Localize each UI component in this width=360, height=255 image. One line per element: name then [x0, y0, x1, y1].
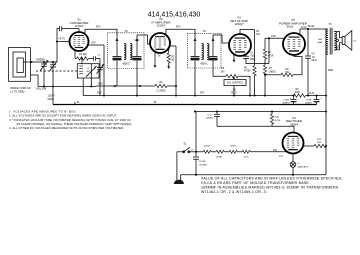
- node label 12SA7 GRID: [48, 95, 56, 101]
- svg-text:414,415,416,430: 414,415,416,430: [148, 12, 201, 19]
- svg-text:455KC: 455KC: [200, 63, 207, 65]
- svg-text:+: +: [321, 97, 323, 100]
- svg-text:C7: C7: [250, 52, 254, 54]
- wire: V1 plate to T1 primary, 87V: [85, 26, 117, 34]
- resistor R3: [167, 48, 175, 69]
- svg-text:121V: 121V: [301, 26, 307, 29]
- capacitor C9 .02 MFD: [305, 28, 317, 96]
- capacitor C2 (osc grid cap): [60, 26, 80, 31]
- svg-text:R3: R3: [171, 56, 175, 58]
- wire: osc coil bottom-left to B+ rail corner: [82, 78, 84, 96]
- svg-text:R1 22K: R1 22K: [79, 54, 87, 56]
- wire: T2 secondary top to V3 diode plates: [213, 35, 229, 43]
- bottom AC bus: [181, 174, 326, 176]
- svg-text:35W4: 35W4: [290, 122, 298, 126]
- svg-text:50L6: 50L6: [244, 157, 250, 159]
- output transformer T3: [318, 23, 337, 55]
- wire: C7 to V5 grid: [265, 35, 285, 64]
- svg-text:R7: R7: [269, 68, 273, 70]
- svg-text:47Ω: 47Ω: [279, 156, 283, 158]
- svg-text:B-: B-: [77, 100, 80, 104]
- svg-text:C10: C10: [207, 114, 212, 116]
- wire: V3 plate to R5, C8 node: [240, 30, 261, 36]
- svg-text:S1: S1: [184, 143, 188, 146]
- wire: loop upper terminal to tuning capacitor (GREEN): [23, 58, 57, 64]
- svg-text:12SK7: 12SK7: [156, 24, 165, 28]
- svg-text:POWER AMPLIFIER: POWER AMPLIFIER: [279, 21, 308, 25]
- notes block left: [9, 109, 133, 130]
- svg-text:40MFD: 40MFD: [305, 102, 313, 104]
- svg-text:YELLOW: YELLOW: [36, 87, 47, 91]
- svg-text:12SK7: 12SK7: [230, 145, 237, 147]
- svg-text:VALUE OF ALL CAPACITORS ARE IN: VALUE OF ALL CAPACITORS ARE IN MMF UNLES…: [201, 176, 343, 180]
- svg-text:105MMF IN ASSEMBLIES MARKED W7: 105MMF IN ASSEMBLIES MARKED W71469-3, 81…: [201, 186, 339, 190]
- svg-text:12SA7: 12SA7: [216, 156, 223, 159]
- svg-text:87V: 87V: [96, 26, 101, 29]
- svg-text:R12: R12: [317, 139, 322, 141]
- svg-text:R8: R8: [286, 69, 290, 71]
- capacitor C7 .005 MFD (coupling): [243, 52, 269, 63]
- svg-text:470K: 470K: [268, 55, 274, 57]
- svg-text:I1: I1: [298, 163, 301, 165]
- svg-text:*-8.7V: *-8.7V: [58, 38, 65, 41]
- svg-text:22Ω: 22Ω: [317, 142, 321, 144]
- trimmer capacitor C1B branch: [50, 61, 57, 86]
- svg-text:LS: LS: [353, 41, 356, 43]
- tube V2 IF amplifier 12SK7: [150, 17, 171, 53]
- variable capacitor C1C (osc tuning): [96, 59, 103, 96]
- volume control R4 1/2 MEG: [221, 68, 246, 95]
- resistor R10 470: [270, 112, 280, 127]
- wire: YELLOW / AVC line left section: [38, 85, 96, 87]
- capacitor C10 .05MFD: [206, 112, 220, 127]
- svg-text:.02: .02: [312, 57, 316, 59]
- resistor R1 22K: [75, 50, 93, 60]
- wire: V2 screen to B+ rail: [170, 46, 177, 96]
- svg-text:T3: T3: [329, 23, 332, 26]
- electrolytic C13A 40MFD: [282, 94, 296, 104]
- wire: T1 secondary top to V2 grid: [133, 35, 150, 44]
- wire: grid lead to V1: [57, 29, 60, 63]
- wire: T2 secondary to volume control: [213, 68, 226, 76]
- svg-text:VOL CONTROL: VOL CONTROL: [227, 83, 244, 85]
- svg-text:L1 TO GRID: L1 TO GRID: [10, 89, 24, 93]
- wire: V3 cathode return with arrow: [233, 54, 236, 62]
- AC line vertical: [325, 96, 327, 175]
- power plug: [174, 152, 184, 184]
- svg-text:T1: T1: [124, 29, 128, 33]
- notes block right: [201, 176, 343, 194]
- svg-text:2.2 MEG: 2.2 MEG: [156, 90, 166, 93]
- svg-text:240: 240: [221, 71, 226, 73]
- svg-text:87V: 87V: [92, 43, 97, 45]
- svg-text:C9: C9: [312, 54, 316, 56]
- svg-text:MAZDA 47: MAZDA 47: [298, 166, 309, 169]
- svg-text:.05MFD: .05MFD: [206, 117, 214, 119]
- svg-text:R4: R4: [221, 68, 225, 70]
- IF transformer T2: [187, 29, 221, 68]
- svg-text:87V: 87V: [200, 92, 205, 95]
- svg-text:C8: C8: [256, 31, 260, 33]
- wire: loop lower terminal (YELLOW): [31, 75, 47, 91]
- svg-text:RED: RED: [328, 69, 333, 72]
- svg-text:150: 150: [285, 72, 290, 74]
- svg-text:87V: 87V: [176, 26, 181, 29]
- svg-text:R6: R6: [268, 52, 272, 54]
- svg-text:68: 68: [171, 59, 174, 61]
- svg-text:R2: R2: [159, 81, 163, 84]
- resistor R7 1 MEG: [263, 59, 275, 96]
- wire: transformer primary bottom, RED lead down: [326, 54, 333, 95]
- resistor R8 150 (cathode): [265, 55, 302, 77]
- svg-text:MEG: MEG: [231, 92, 237, 95]
- svg-text:B-: B-: [154, 100, 157, 104]
- tube V5 power amplifier 50L6: [279, 18, 308, 55]
- svg-text:1MEG: 1MEG: [269, 71, 276, 73]
- svg-text:T2: T2: [202, 29, 206, 33]
- resistor R12 22 (surge): [303, 139, 327, 148]
- wire: V1 screen to B+ rail: [88, 43, 104, 96]
- tube V3 det AF amp 12SQ7: [229, 16, 251, 56]
- svg-text:1500: 1500: [294, 91, 300, 94]
- svg-text:R10: R10: [275, 117, 280, 119]
- tube V1 converter 12SA7: [70, 18, 90, 51]
- wire: T1 secondary bottom to AVC line: [116, 69, 118, 87]
- speaker LS and voice coil: [334, 31, 356, 51]
- svg-text:MFD: MFD: [312, 60, 317, 62]
- AVC line: [96, 83, 155, 87]
- svg-text:12SA7: 12SA7: [74, 24, 83, 28]
- wire: V2 cathode return with arrow: [154, 52, 161, 68]
- svg-text:INSIDE TURN OF: INSIDE TURN OF: [10, 86, 31, 90]
- svg-text:470Ω: 470Ω: [275, 120, 281, 122]
- IF transformer T1: [108, 29, 145, 69]
- svg-text:L2: L2: [87, 68, 90, 70]
- svg-text:C5,C6 & R5 ARE PART OF MOLDED: C5,C6 & R5 ARE PART OF MOLDED TRANSFORME…: [201, 181, 310, 185]
- wire: T1 winding bottom to B+ rail: [136, 69, 138, 96]
- svg-text:R5: R5: [244, 67, 248, 69]
- wire: T2 bottom to B+ rail: [194, 68, 196, 96]
- loop antenna L1: [9, 48, 32, 94]
- svg-text:C13B: C13B: [306, 100, 312, 102]
- resistor R9 1500 (filter): [294, 88, 328, 97]
- svg-text:*-4.5V: *-4.5V: [133, 40, 140, 42]
- rectifier feed line: [194, 110, 327, 112]
- pilot lamp I1 MAZDA 47: [290, 154, 309, 175]
- electrolytic C13B 40MFD: [305, 94, 323, 104]
- oscillator coil L2: [77, 57, 99, 78]
- heater chain line: [189, 145, 287, 158]
- svg-text:22-DM: 22-DM: [199, 161, 206, 163]
- svg-text:12SQ7: 12SQ7: [234, 22, 244, 26]
- svg-text:BLUE: BLUE: [308, 25, 315, 28]
- resistor R5 47000: [244, 30, 256, 96]
- switch S1: [177, 143, 194, 153]
- svg-text:4. ALL OTHER DC VOLTAGES MEASU: 4. ALL OTHER DC VOLTAGES MEASURED WITH 2…: [9, 126, 124, 130]
- gang tuning dashed line: [36, 70, 79, 72]
- B- bus: [53, 86, 317, 104]
- wire: vol control right end to B+ rail: [242, 76, 250, 95]
- svg-text:39Ω: 39Ω: [318, 39, 322, 41]
- svg-text:0V: 0V: [191, 150, 194, 152]
- variable capacitor C1A (antenna tuning): [40, 60, 48, 86]
- svg-text:AVC: AVC: [98, 83, 103, 86]
- wire: osc coil to AVC line: [90, 78, 92, 87]
- svg-text:100: 100: [256, 34, 261, 36]
- svg-text:MAX: MAX: [335, 47, 340, 50]
- svg-text:40MFD: 40MFD: [282, 102, 290, 104]
- B+ rail 87V: [83, 92, 309, 97]
- svg-text:455KC: 455KC: [122, 64, 129, 66]
- svg-text:47000: 47000: [244, 71, 251, 73]
- capacitor C11 line bypass: [193, 112, 208, 175]
- resistor R6 470K: [263, 38, 273, 59]
- svg-text:0.5V: 0.5V: [271, 35, 276, 38]
- svg-text:87V: 87V: [97, 92, 102, 95]
- svg-text:MAX: MAX: [318, 41, 323, 44]
- svg-text:3V: 3V: [158, 55, 161, 57]
- svg-text:C4: C4: [98, 54, 102, 56]
- tube V4 rectifier 35W4: [273, 116, 304, 158]
- capacitor C4: [93, 54, 101, 60]
- svg-text:12SQ7: 12SQ7: [204, 145, 212, 147]
- wire: to V4 cathode: [217, 126, 294, 132]
- resistor R2 2.2 MEG: [155, 81, 177, 93]
- svg-text:.05 MFD: .05 MFD: [199, 164, 208, 166]
- wire: V2 plate to T2 primary, 87V: [166, 26, 195, 35]
- svg-text:W71462-1 OR -2 & W71469-1 OR -: W71462-1 OR -2 & W71469-1 OR -3.: [201, 190, 267, 194]
- wire: V5 plate to output transformer, BLUE: [300, 25, 328, 35]
- svg-text:C13A: C13A: [283, 99, 289, 102]
- svg-text:50L6: 50L6: [287, 25, 294, 29]
- svg-text:113V: 113V: [309, 92, 315, 95]
